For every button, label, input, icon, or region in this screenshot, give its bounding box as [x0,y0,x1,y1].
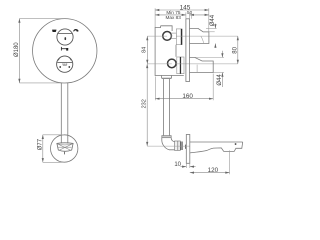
top knob inner curve [201,36,204,43]
dimension 10 extensions [185,163,187,168]
bottom knob bottom edge extension [213,72,224,74]
valve body top raised edge [161,26,173,31]
elbow nut hatched [175,141,186,150]
top knob flat extension [203,31,215,33]
top cartridge front plate [176,29,182,45]
top knob side profile [190,28,209,43]
drop pipe front view right line [67,83,69,143]
lower knob inner arc [58,56,71,60]
bottom cartridge circle [168,59,177,68]
svg-text:120: 120 [208,167,219,174]
top cartridge dark edge [181,29,183,45]
icon bath left of upper knob [52,30,56,32]
wall plate extension up right [189,12,191,18]
spout front view rim curve [57,144,73,145]
svg-text:Max 83: Max 83 [166,15,182,20]
valve body front mid face [175,45,177,57]
dimension 160 line [155,98,213,100]
svg-text:Ø180: Ø180 [14,42,20,57]
elbow outline [162,138,175,150]
dimension 50 line [190,14,209,16]
upper knob center slot [65,37,67,40]
bottom cartridge plate 1 [177,57,180,74]
svg-text:Ø44: Ø44 [217,74,223,86]
dimension 84 line [146,36,148,64]
spout wall plate [186,135,190,164]
dimension Ø44 bottom arrow upper [221,51,223,58]
svg-text:Ø77: Ø77 [38,138,44,150]
lower knob circle [57,56,73,72]
center line top knob [147,35,167,37]
bottom knob inner line [196,65,198,73]
bottom knob top edge extension [195,56,224,58]
dimension Ø180 line with arrows [18,19,20,83]
svg-text:50: 50 [187,10,193,15]
dimension 120 extension right [229,150,231,174]
lower knob chord line [57,62,72,64]
dimension 10 tail right [190,166,196,168]
dimension 145 extension right [208,8,210,32]
body stub dark cap [162,77,171,80]
spout side top line [190,141,243,143]
dimension Ø180 extension line top [19,18,64,20]
spout front view outline [57,143,73,152]
top cartridge circle [163,32,172,41]
icon shower arrow right of upper knob [73,29,78,32]
icon lounger below upper knob [61,47,68,51]
down pipe right line [169,79,171,136]
bottom cartridge dark edge [180,57,182,74]
top knob top edge extension [206,27,217,29]
dimension Ø44 bottom arrow lower [221,73,223,78]
spout front view diagonal left [58,144,71,151]
dimension 80 line [237,36,239,64]
dimension Ø44 top arrow lower [214,44,216,48]
dimension 160 extension left [154,77,156,101]
spout tip dark dot [235,143,237,145]
dimension Ø180 extension line bottom [19,82,64,84]
dimension 145 extension left [154,8,156,27]
lower knob dot left [59,66,61,68]
pipe collar grey [162,136,171,138]
spout side bottom profile [190,142,243,153]
dimension Ø44 top arrow upper [214,24,216,29]
dimension Ø77 extension line bottom [43,161,64,163]
top cartridge stem [171,33,176,39]
upper knob chord line [58,32,72,34]
drop pipe front view left line [60,83,62,143]
wall plate side rect [186,19,190,82]
faceplate circle Ø180 (front view) [33,19,97,83]
svg-text:232: 232 [142,99,148,108]
down pipe left line [162,79,164,136]
valve body back face [155,26,184,76]
svg-text:80: 80 [232,46,238,53]
lower knob dot right [68,66,70,68]
bottom knob side profile [190,57,214,72]
dimension Ø77 line with arrows [42,135,44,163]
spout center line [147,145,189,147]
spout front view mid line [58,146,72,148]
svg-text:10: 10 [174,162,181,168]
spout front view aerator tick [64,152,66,155]
dimension 120 line [190,172,230,174]
svg-text:84: 84 [142,47,148,53]
dimension Min75/Max83 line [155,14,186,16]
spout front view diagonal right [59,144,72,151]
dimension 232 line [146,64,148,146]
spout flange circle Ø77 [50,135,77,162]
svg-text:Ø44: Ø44 [210,14,216,26]
svg-text:160: 160 [182,93,193,100]
lower knob tiny label marks [62,64,67,65]
plaster face extension [190,13,192,19]
upper knob circle [57,29,73,45]
dimension 160 extension right [212,74,214,101]
dimension 145 line [155,9,209,11]
wall plate extension up left [185,12,187,18]
center line bottom knob [147,63,172,65]
body bottom stub [162,75,172,78]
dimension 10 tail left [180,166,186,168]
bottom cartridge plate 2 [180,57,184,74]
dimension Ø77 extension line top [43,134,64,136]
